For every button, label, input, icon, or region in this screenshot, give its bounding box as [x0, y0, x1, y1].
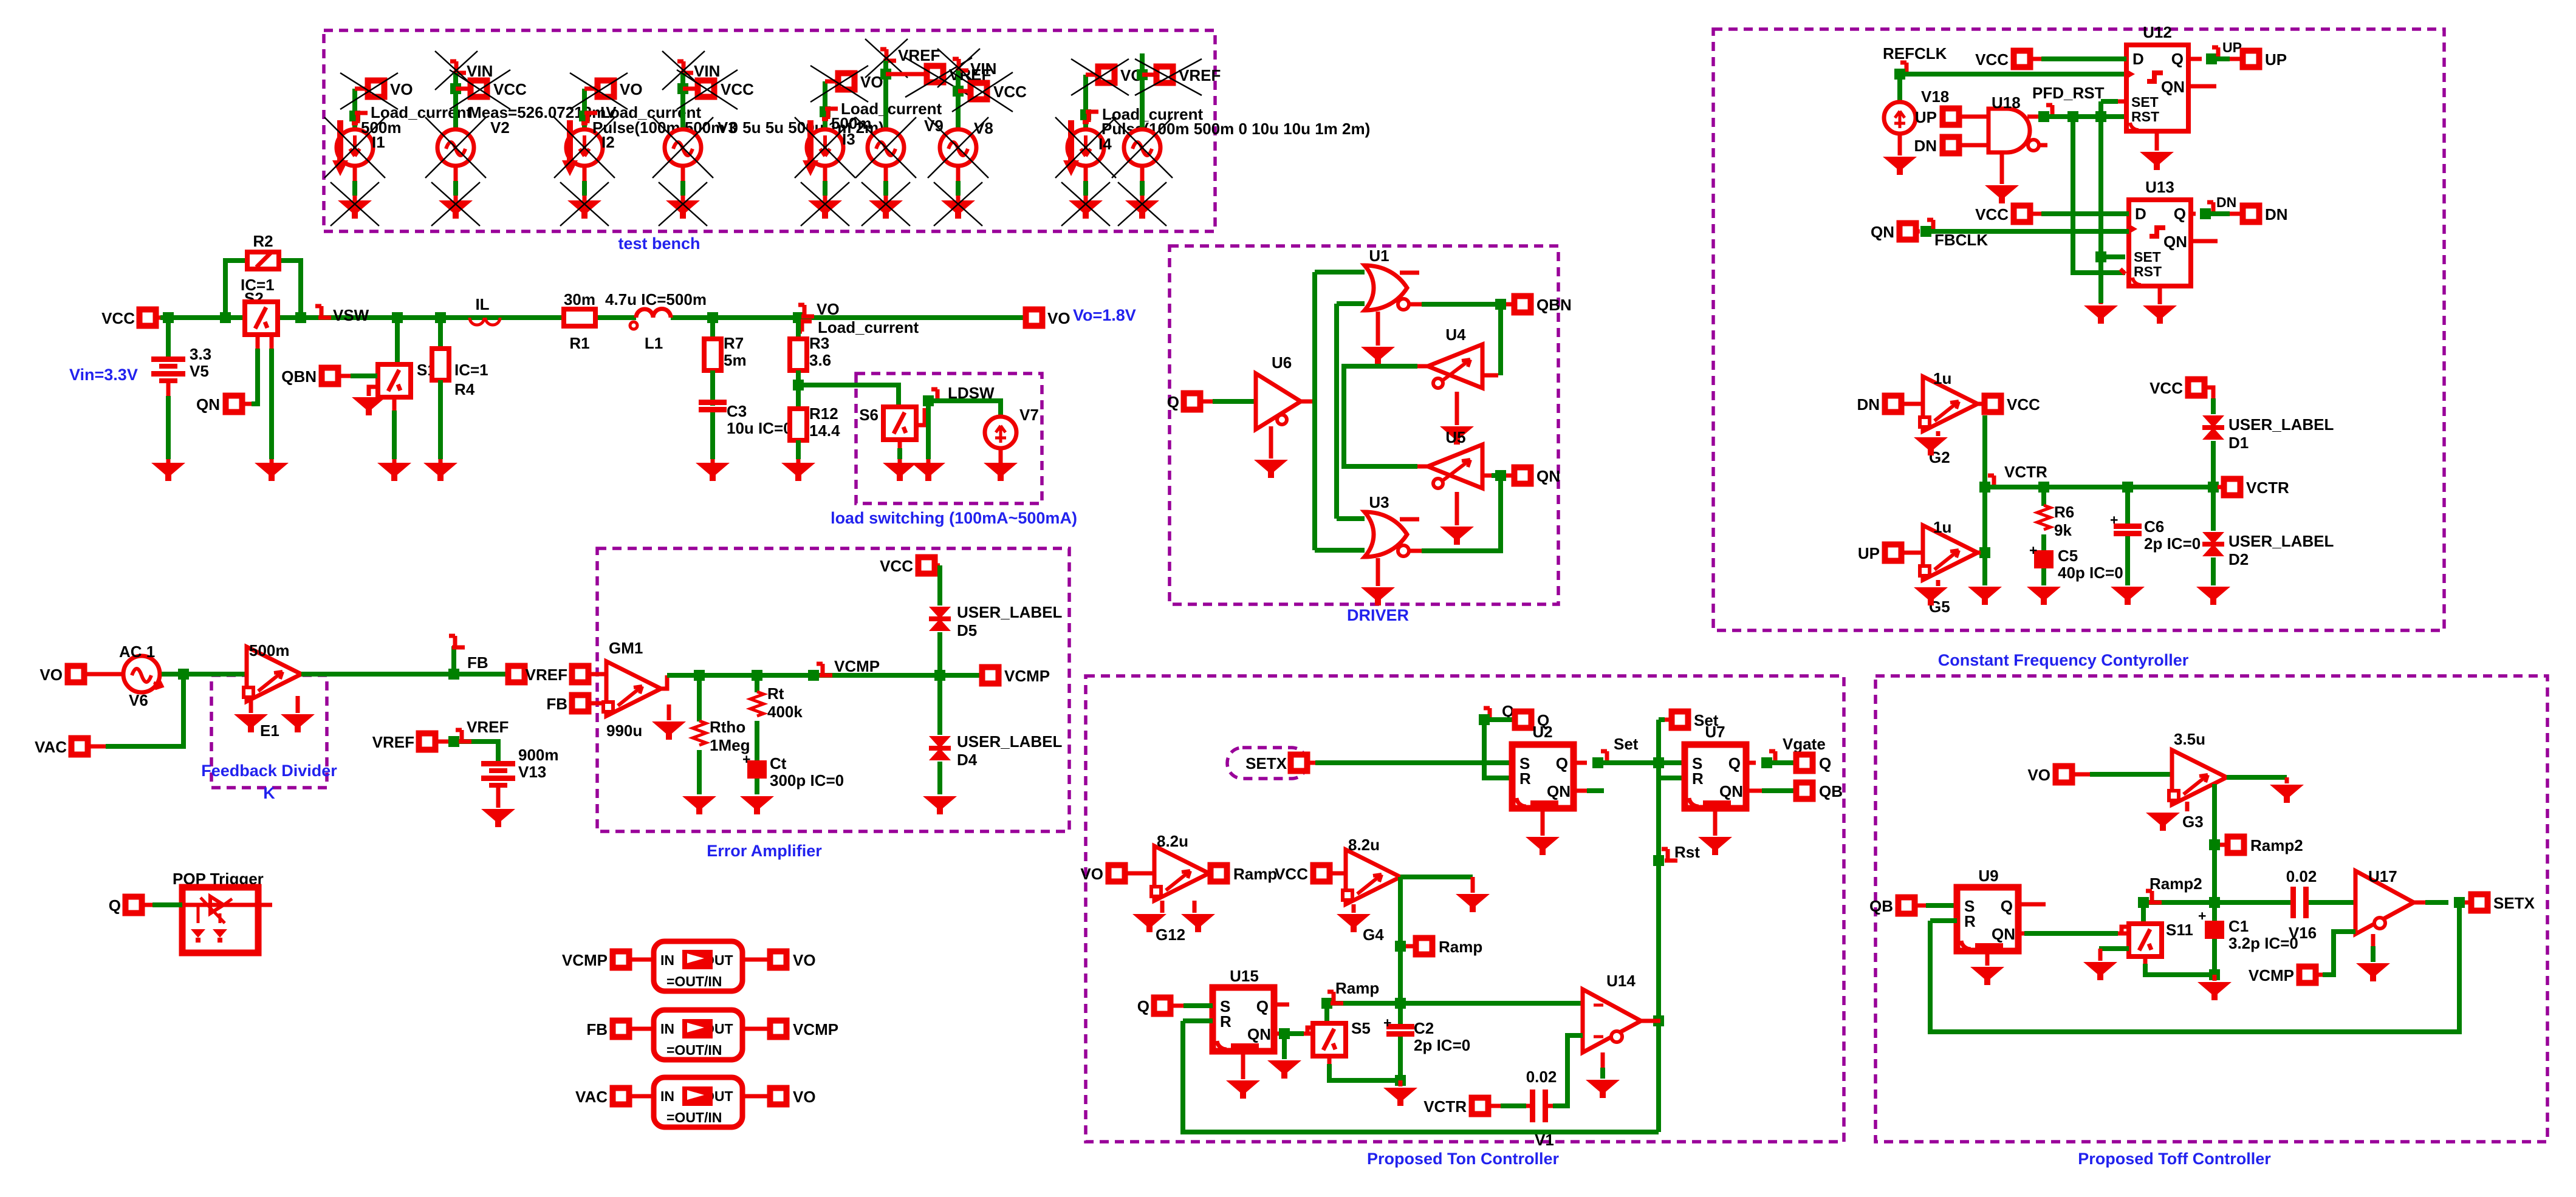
svg-text:1u: 1u — [1933, 518, 1951, 536]
svg-text:Q: Q — [1167, 393, 1179, 411]
switch S5 — [1313, 1003, 1371, 1056]
inverter U4 — [1428, 326, 1482, 388]
svg-text:V18: V18 — [1921, 87, 1949, 106]
port VCTR of ton — [1423, 1097, 1526, 1116]
svg-text:Ramp: Ramp — [1439, 938, 1482, 956]
ground of V17 — [1118, 182, 1166, 226]
port SETX output — [2472, 894, 2535, 912]
svg-text:400k: 400k — [767, 703, 803, 721]
ground of G4 left — [1337, 904, 1371, 932]
port VO of I4 — [1071, 59, 1143, 95]
port FB of error amp — [546, 695, 612, 713]
svg-text:3.2p IC=0: 3.2p IC=0 — [2228, 934, 2298, 952]
SR flip-flop U2 — [1512, 723, 1574, 808]
current source V7 — [928, 401, 1039, 463]
current probe IL — [470, 295, 500, 325]
svg-text:PFD_RST: PFD_RST — [2032, 84, 2105, 102]
probe VO on rail — [798, 300, 840, 318]
node PFD_RST — [2032, 84, 2105, 122]
svg-text:V5: V5 — [190, 362, 209, 380]
ground of U2 — [1526, 808, 1560, 855]
svg-text:VO: VO — [39, 666, 63, 684]
ground of SET net — [2084, 303, 2118, 324]
svg-text:=OUT/IN: =OUT/IN — [666, 1110, 722, 1125]
probe FB — [449, 636, 488, 672]
diode D5 — [929, 603, 1062, 675]
ground of G5 output — [1968, 587, 2002, 605]
svg-text:U9: U9 — [1978, 867, 1998, 885]
nor gate U1 — [1365, 247, 1422, 310]
port VREF of V9 — [886, 58, 991, 97]
current source I1 — [324, 89, 471, 200]
amplifier E1 — [244, 641, 301, 740]
port VCC of G2 — [1985, 395, 2041, 414]
wire Ramp2 vertical — [2209, 784, 2220, 921]
amplifier G5 — [1920, 518, 1985, 616]
diode D1 — [2202, 398, 2334, 487]
ground of V2 — [431, 182, 480, 226]
port Q output — [1797, 754, 1832, 772]
svg-text:VSW: VSW — [333, 306, 369, 324]
port QBN — [1515, 296, 1572, 314]
svg-text:300p IC=0: 300p IC=0 — [770, 771, 844, 789]
port VCC of V2 — [450, 70, 527, 109]
svg-text:Constant Frequency Contyroller: Constant Frequency Contyroller — [1938, 651, 2189, 669]
port Q of U15 — [1137, 997, 1213, 1015]
svg-text:S6: S6 — [859, 406, 879, 424]
svg-text:VO: VO — [793, 1088, 816, 1106]
port VCMP output — [982, 667, 1050, 685]
svg-text:S5: S5 — [1351, 1019, 1371, 1037]
svg-text:FB: FB — [546, 695, 567, 713]
ground of V3 — [659, 182, 707, 226]
svg-text:DN: DN — [2216, 194, 2236, 210]
port VCC of U12 — [1975, 50, 2126, 69]
svg-text:10u IC=0: 10u IC=0 — [727, 419, 792, 437]
probe Ramp2 — [2146, 875, 2202, 904]
svg-text:VREF: VREF — [372, 733, 414, 751]
switch S1 — [378, 318, 488, 463]
ground of C1 — [2197, 982, 2232, 1000]
ground of QN stub — [1267, 1034, 1301, 1079]
ground of I3 — [801, 182, 849, 226]
svg-text:U4: U4 — [1445, 326, 1466, 344]
svg-text:VREF: VREF — [467, 718, 509, 736]
wire U15 QN to S5 — [1274, 1028, 1313, 1039]
svg-text:V1: V1 — [1535, 1131, 1554, 1149]
current source I3 — [795, 81, 942, 200]
svg-text:R12: R12 — [809, 404, 838, 423]
ground of U3 — [1361, 558, 1395, 605]
svg-text:C3: C3 — [727, 402, 747, 420]
resistor Rtho — [693, 675, 750, 794]
Proposed Ton Controller box — [1086, 676, 1844, 1168]
resistor Rt — [750, 675, 803, 760]
ground of U4 — [1440, 392, 1474, 445]
svg-text:+: + — [2198, 908, 2206, 924]
wire PFD_RST net — [2044, 101, 2130, 303]
svg-text:SETX: SETX — [2493, 894, 2535, 912]
port VO of I1 — [340, 73, 413, 109]
bode block VAC to VO — [575, 1077, 816, 1127]
port VCC of V3 — [677, 70, 754, 109]
SETX oval — [1227, 748, 1307, 779]
svg-text:VO: VO — [860, 73, 883, 91]
ground of G3 output — [2270, 777, 2304, 803]
ground of G4 output — [1456, 877, 1490, 912]
svg-text:Proposed Ton Controller: Proposed Ton Controller — [1367, 1150, 1559, 1168]
svg-text:VO: VO — [1080, 865, 1103, 883]
svg-text:V9: V9 — [924, 117, 944, 135]
ground of G5 left — [1914, 580, 1948, 605]
capacitor V1 — [1526, 1068, 1557, 1149]
amplifier G3 — [2169, 730, 2227, 831]
svg-text:I4: I4 — [1098, 135, 1112, 153]
svg-text:VCC: VCC — [101, 309, 135, 327]
wire U3 to QN — [1422, 481, 1501, 551]
port VCC of D1 — [2150, 379, 2213, 398]
svg-text:VREF: VREF — [526, 666, 567, 684]
svg-text:14.4: 14.4 — [809, 421, 840, 440]
ground of E1 right — [281, 696, 315, 732]
port QB input — [1869, 897, 1957, 915]
svg-text:Rtho: Rtho — [710, 718, 745, 736]
test bench box — [324, 30, 1215, 253]
svg-text:Rt: Rt — [767, 684, 784, 703]
svg-text:Q: Q — [1819, 754, 1831, 772]
svg-text:VCMP: VCMP — [2249, 966, 2294, 984]
POP Trigger block — [173, 870, 272, 953]
svg-text:QB: QB — [1819, 782, 1843, 800]
ground of GM1 — [652, 704, 686, 740]
svg-text:30m: 30m — [564, 290, 595, 309]
node Vgate — [1746, 735, 1826, 768]
wire QBN to U4 — [1482, 310, 1501, 375]
voltage source V2 — [425, 51, 617, 200]
svg-text:DN: DN — [1914, 137, 1937, 155]
Proposed Toff Controller box — [1875, 676, 2547, 1168]
svg-text:Load_current: Load_current — [818, 318, 919, 336]
wire U12 Q to UP — [2188, 39, 2242, 64]
probe VCMP — [817, 657, 880, 677]
svg-text:Ramp: Ramp — [1335, 979, 1379, 997]
ground of U1 — [1361, 312, 1395, 365]
svg-text:D1: D1 — [2228, 434, 2249, 452]
svg-text:Q: Q — [1137, 997, 1149, 1015]
svg-text:C6: C6 — [2144, 517, 2164, 536]
svg-text:VCMP: VCMP — [1004, 667, 1050, 685]
port Ramp mid — [1406, 938, 1482, 956]
port VREF of V17 — [1135, 59, 1221, 95]
capacitor C6 — [2110, 487, 2201, 585]
svg-text:VREF: VREF — [898, 46, 940, 64]
svg-text:QN: QN — [196, 395, 220, 414]
svg-text:40p IC=0: 40p IC=0 — [2058, 564, 2123, 582]
svg-text:U12: U12 — [2143, 23, 2172, 41]
wire E1 output to FB — [301, 646, 505, 680]
svg-text:VAC: VAC — [575, 1088, 608, 1106]
ground of C5 — [2027, 587, 2061, 605]
svg-text:SETX: SETX — [1245, 754, 1287, 772]
svg-text:U13: U13 — [2145, 178, 2174, 196]
ground of E1 left — [234, 696, 268, 732]
svg-text:VCMP: VCMP — [562, 951, 608, 969]
diode D2 — [2202, 487, 2334, 585]
svg-text:+: + — [1383, 1015, 1391, 1031]
svg-text:=OUT/IN: =OUT/IN — [666, 1042, 722, 1058]
svg-text:VCMP: VCMP — [793, 1020, 838, 1038]
ground of U17 — [2356, 934, 2390, 981]
port VREF of error amp — [526, 666, 606, 684]
ground of G3 left — [2146, 802, 2187, 831]
svg-text:VCC: VCC — [493, 80, 527, 98]
voltage source V3 — [653, 51, 737, 200]
port QN feedback — [1871, 223, 1920, 241]
ground of Ct — [740, 796, 774, 814]
ground of S6 control — [911, 463, 945, 481]
svg-text:+: + — [742, 751, 750, 767]
svg-text:V2: V2 — [490, 118, 510, 137]
svg-text:U14: U14 — [1606, 972, 1636, 990]
port VCTR output — [2218, 479, 2289, 497]
ground under S6 — [883, 463, 917, 481]
wire U17 to SETX — [2425, 897, 2468, 908]
svg-text:VCTR: VCTR — [1423, 1097, 1467, 1116]
svg-text:DN: DN — [2265, 205, 2288, 223]
port FB of divider — [509, 666, 525, 683]
svg-text:3.3: 3.3 — [190, 345, 211, 363]
switch S11 — [2129, 902, 2193, 957]
wire U13 QN stub — [2191, 239, 2218, 244]
port DN output — [2243, 205, 2288, 223]
wire S2 control to QN — [244, 335, 258, 404]
ground of S1 control — [352, 397, 386, 415]
svg-text:VO: VO — [620, 80, 643, 98]
svg-text:REFCLK: REFCLK — [1883, 44, 1947, 63]
Constant Frequency Controller box — [1713, 29, 2444, 669]
port VCC of U13 — [1975, 205, 2129, 223]
svg-text:0.02: 0.02 — [2286, 867, 2317, 885]
wire U4 to U5 — [1344, 366, 1428, 466]
amplifier G4 — [1343, 836, 1400, 944]
ground under S2 — [255, 463, 289, 481]
svg-text:9k: 9k — [2054, 521, 2072, 539]
svg-text:Ramp2: Ramp2 — [2250, 836, 2303, 854]
port SETX input — [1245, 754, 1512, 772]
svg-text:8.2u: 8.2u — [1348, 836, 1380, 854]
probe VCTR — [1988, 463, 2047, 488]
svg-text:2p IC=0: 2p IC=0 — [2144, 534, 2201, 553]
svg-text:C5: C5 — [2058, 547, 2078, 565]
svg-text:VAC: VAC — [35, 738, 67, 756]
voltage source V13 — [481, 746, 559, 808]
svg-text:USER_LABEL: USER_LABEL — [957, 603, 1062, 621]
ground of I1 — [331, 182, 379, 226]
wire U5 to QN — [1482, 470, 1512, 481]
svg-text:VCMP: VCMP — [834, 657, 880, 675]
wire G4 output — [1400, 875, 1473, 879]
resistor R2 — [225, 232, 301, 318]
svg-text:Set: Set — [1614, 735, 1639, 753]
inductor L1 — [605, 290, 707, 352]
port VO of G3 — [2027, 766, 2172, 784]
voltage source V17 — [1112, 53, 1173, 200]
svg-text:I3: I3 — [842, 130, 855, 148]
wire U6 fork — [1315, 272, 1365, 550]
resistor R7 — [704, 318, 747, 406]
wire U9 R feedback — [1930, 908, 2459, 1032]
svg-text:U3: U3 — [1369, 493, 1389, 511]
wire to load switch — [798, 385, 899, 407]
port UP output — [2243, 50, 2287, 69]
port QBN — [281, 367, 377, 396]
ground of D2 — [2196, 587, 2230, 605]
svg-text:1u: 1u — [1933, 369, 1951, 387]
port QN — [1515, 467, 1561, 485]
wire S11 left to ground — [2099, 949, 2129, 961]
svg-text:VREF: VREF — [1179, 66, 1221, 84]
svg-text:U5: U5 — [1445, 428, 1465, 446]
svg-text:500m: 500m — [249, 641, 290, 660]
svg-text:V16: V16 — [2289, 924, 2317, 942]
svg-text:load switching (100mA~500mA): load switching (100mA~500mA) — [831, 509, 1077, 527]
wire G3 output — [2227, 775, 2287, 780]
wire V1 to U14 — [1553, 1035, 1583, 1106]
comparator U17 — [2355, 867, 2425, 934]
bode block FB to VCMP — [586, 1010, 838, 1060]
capacitor C1 — [2198, 908, 2298, 975]
svg-text:USER_LABEL: USER_LABEL — [957, 732, 1062, 751]
probe VSW — [315, 306, 369, 324]
wire U9 Q stub — [2018, 902, 2046, 907]
svg-text:IN: IN — [660, 1088, 674, 1104]
capacitor C2 — [1383, 1015, 1470, 1054]
svg-text:8.2u: 8.2u — [1157, 832, 1188, 850]
svg-text:VIN: VIN — [970, 60, 996, 78]
voltage source V8 — [928, 49, 996, 200]
ground of V7 — [984, 463, 1018, 481]
svg-text:FB: FB — [467, 653, 488, 672]
wire V6 to E1 and VAC — [106, 669, 247, 746]
svg-text:VCC: VCC — [993, 83, 1027, 101]
wire VCTR bus — [1985, 482, 2219, 493]
wire C2 to ground node — [1398, 1037, 1403, 1086]
nand gate U18 — [1989, 94, 2047, 152]
svg-text:IN: IN — [660, 952, 674, 968]
svg-text:U15: U15 — [1230, 967, 1259, 985]
port VREF of divider — [372, 733, 454, 751]
svg-text:VO: VO — [1047, 309, 1070, 327]
node FBCLK — [1920, 220, 2129, 249]
port QN — [196, 395, 242, 414]
diode D4 — [929, 675, 1062, 794]
wire S5 bottom — [1329, 1056, 1406, 1086]
bode block VCMP to VO — [562, 941, 816, 991]
svg-text:Vin=3.3V: Vin=3.3V — [69, 366, 138, 384]
ground of U5 — [1440, 492, 1474, 545]
svg-text:V6: V6 — [129, 691, 148, 709]
svg-text:VCC: VCC — [2150, 379, 2183, 397]
svg-text:R7: R7 — [724, 334, 744, 352]
wire Ramp vertical — [1395, 877, 1406, 1024]
svg-text:QN: QN — [1871, 223, 1894, 241]
svg-text:R1: R1 — [569, 334, 589, 352]
svg-text:990u: 990u — [606, 721, 642, 740]
svg-text:3.5u: 3.5u — [2174, 730, 2205, 748]
svg-text:R6: R6 — [2054, 503, 2074, 521]
svg-text:I1: I1 — [372, 133, 385, 151]
ground under R4 — [423, 463, 457, 481]
ground of G2 — [1914, 431, 1948, 455]
svg-text:Proposed Toff Controller: Proposed Toff Controller — [2078, 1150, 2271, 1168]
svg-text:VCC: VCC — [1275, 865, 1308, 883]
comparator U14 — [1583, 972, 1660, 1052]
port Set — [1659, 711, 1719, 778]
svg-text:GM1: GM1 — [609, 639, 643, 657]
probe REFCLK — [1883, 44, 1947, 80]
svg-text:VO: VO — [817, 300, 840, 318]
wire U1 to QBN — [1422, 299, 1512, 310]
port VO output — [1026, 306, 1136, 327]
wire S11 bottom — [2145, 957, 2220, 981]
svg-text:D4: D4 — [957, 751, 978, 769]
port QB output — [1797, 782, 1843, 800]
switch S6 — [859, 406, 925, 463]
svg-text:Vgate: Vgate — [1783, 735, 1826, 753]
svg-text:VCTR: VCTR — [2004, 463, 2047, 481]
ground of S11 left — [2083, 962, 2117, 980]
svg-text:D5: D5 — [957, 621, 977, 639]
svg-text:UP: UP — [2265, 50, 2287, 69]
ground of C6 — [2111, 587, 2145, 605]
svg-text:QN: QN — [1536, 467, 1560, 485]
node Rst — [1653, 843, 1700, 866]
svg-text:IL: IL — [475, 295, 489, 313]
port Q of POP trigger — [109, 896, 182, 915]
nor gate U3 — [1365, 493, 1422, 557]
wire U13 Q to DN — [2191, 194, 2240, 219]
amplifier G12 — [1151, 832, 1214, 944]
svg-text:QB: QB — [1869, 897, 1893, 915]
ground of I4 — [1061, 182, 1110, 226]
voltage source V9 — [855, 39, 944, 200]
svg-text:DN: DN — [1857, 395, 1880, 414]
ground under S1 — [377, 463, 411, 481]
svg-text:USER_LABEL: USER_LABEL — [2228, 532, 2334, 550]
svg-text:2p IC=0: 2p IC=0 — [1414, 1036, 1470, 1054]
ground of U7 — [1698, 808, 1732, 855]
ground of D4 — [923, 796, 957, 814]
port VAC — [35, 738, 106, 756]
port VCMP of toff — [2249, 932, 2355, 984]
svg-text:0.02: 0.02 — [1526, 1068, 1557, 1086]
svg-text:G12: G12 — [1156, 926, 1185, 944]
wire VREF to V13 — [448, 718, 509, 762]
DRIVER box — [1170, 246, 1558, 624]
svg-text:5m: 5m — [724, 351, 747, 369]
svg-text:D2: D2 — [2228, 550, 2249, 568]
probe Load_current — [796, 318, 919, 336]
svg-text:+: + — [2029, 542, 2037, 558]
capacitor V16 — [2286, 867, 2355, 942]
ground of V5 — [151, 463, 185, 481]
svg-text:V13: V13 — [518, 763, 546, 781]
svg-text:Feedback Divider: Feedback Divider — [201, 762, 337, 780]
resistor R1 — [564, 290, 595, 352]
ground of U18 — [1985, 152, 2019, 203]
svg-text:USER_LABEL: USER_LABEL — [2228, 415, 2334, 434]
svg-text:IN: IN — [660, 1021, 674, 1037]
